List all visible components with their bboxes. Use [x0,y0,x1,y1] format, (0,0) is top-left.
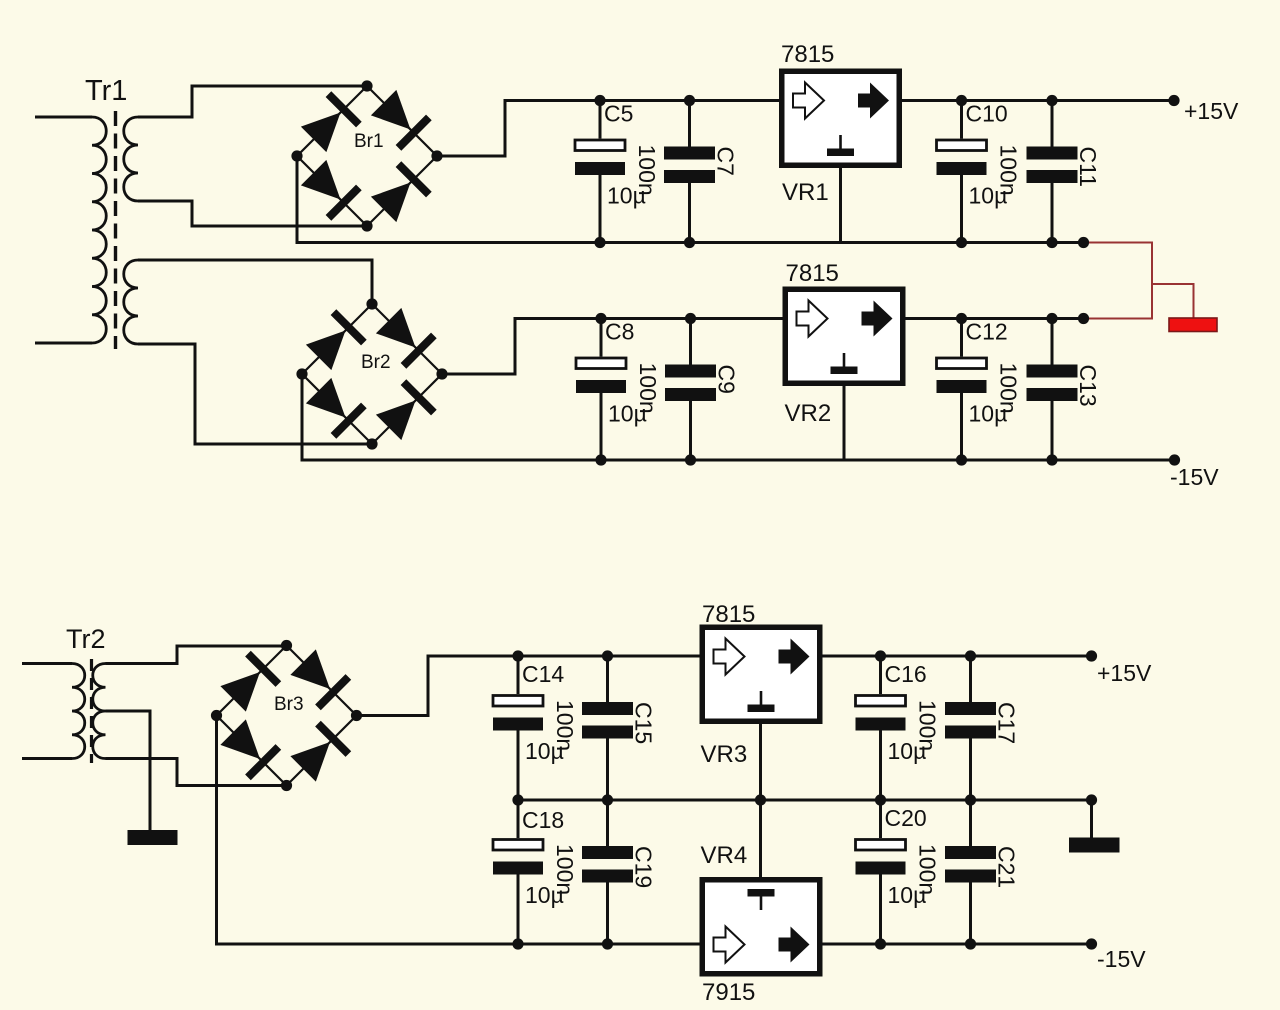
wire Br1 minus to 0V rail [297,156,1084,243]
junction node (600,100.5) [594,95,605,106]
wire Tr2 secondary top to Br3 AC top [106,646,287,664]
svg-text:100n: 100n [552,700,578,751]
junction node (760.5,800) [755,794,766,805]
wire VR3 output to +15V terminal [823,655,1092,658]
junction node (1052,318.5) [1046,313,1057,324]
svg-text:100n: 100n [635,363,661,414]
junction node (607.5,800) [602,794,613,805]
wire Tr1 secondary2 top to Br2 AC top [138,260,372,304]
svg-text:100n: 100n [996,145,1022,196]
junction node (970.5,944) [965,938,976,949]
svg-text:7915: 7915 [702,979,755,1006]
bridge rectifier Br2 [296,298,447,449]
wire middle 0V rail [518,799,1092,802]
bridge rectifier Br1 [291,80,442,231]
junction node (607.5,656) [602,650,613,661]
transformer Tr1 [85,75,138,349]
junction node (1052,242.5) [1046,237,1057,248]
capacitor C21 [915,800,1020,944]
junction node (970.5,800) [965,794,976,805]
wire Br2 plus to VR2 input rail [442,319,783,375]
capacitor C10 [937,101,1008,243]
svg-text:7815: 7815 [781,41,834,68]
svg-text:C11: C11 [1075,147,1101,188]
junction node (961.5,100.5) [956,95,967,106]
junction node (689.5,242.5) [684,237,695,248]
wire red link top rail [1084,243,1153,319]
voltage regulator VR2 (7815) [785,289,903,383]
wire VR1 output to +15V terminal [902,99,1174,102]
wire Br3 plus to VR3 input rail [357,656,700,716]
svg-text:C15: C15 [631,702,657,744]
capacitor C7 [634,101,739,243]
wire Tr1 primary bottom lead [35,342,92,345]
junction node (600,242.5) [594,237,605,248]
svg-text:VR2: VR2 [785,400,832,427]
svg-text:Tr1: Tr1 [85,75,127,107]
node -15V terminal (bottom) [1086,938,1097,949]
capacitor C9 [635,319,740,461]
junction node (1091.5,800) [1086,794,1097,805]
capacitor C16 [856,656,927,800]
svg-text:+15V: +15V [1184,98,1239,124]
svg-text:100n: 100n [915,700,941,751]
junction node (518,800) [512,794,523,805]
svg-text:7815: 7815 [702,601,755,628]
svg-text:C13: C13 [1075,365,1101,407]
svg-text:VR4: VR4 [701,842,748,869]
capacitor C12 [937,319,1008,461]
capacitor C14 [493,656,564,800]
junction node (1083.5,318.5) [1078,313,1089,324]
ground bar (right) [1069,838,1120,853]
wire Tr2 secondary bottom to Br3 AC bottom [106,759,287,786]
junction node (880.5,800) [875,794,886,805]
svg-text:100n: 100n [996,363,1022,414]
bridge rectifier Br3 [211,640,362,791]
svg-text:+15V: +15V [1097,660,1152,686]
svg-text:VR1: VR1 [782,179,829,206]
wire Br1 plus to VR1 input rail [437,101,779,157]
junction node (880.5,944) [875,938,886,949]
svg-text:C9: C9 [714,365,740,394]
svg-text:C12: C12 [966,319,1008,345]
junction node (970.5,656) [965,650,976,661]
ground bar (center tap) [128,830,178,845]
capacitor C13 [996,319,1102,461]
junction node (601,318.5) [595,313,606,324]
wire ground stub (right) [1090,800,1093,838]
svg-text:VR3: VR3 [701,741,748,768]
wire Tr2 primary bottom lead [22,757,72,760]
voltage regulator VR1 (7815) [782,71,900,165]
capacitor C20 [856,800,927,944]
wire VR2 output rail [906,317,1084,320]
wire Tr1 secondary1 bottom to Br1 AC bottom [138,201,367,226]
svg-text:100n: 100n [552,844,578,895]
wire Br2 minus to -15V rail [302,374,1175,460]
svg-text:Tr2: Tr2 [66,624,106,654]
svg-text:Br2: Br2 [361,352,391,373]
junction node (607.5,944) [602,938,613,949]
svg-text:-15V: -15V [1170,464,1219,490]
capacitor C11 [996,101,1102,243]
svg-text:C10: C10 [966,101,1008,127]
svg-text:C14: C14 [522,661,564,687]
node +15V terminal (top) [1168,95,1179,106]
svg-text:C19: C19 [631,846,657,888]
junction node (690.5,460) [685,454,696,465]
wire Tr2 center tap to ground [106,711,151,830]
svg-text:C7: C7 [713,147,739,176]
wire Br3 minus to -15V rail [217,716,1092,945]
junction node (961.5,242.5) [956,237,967,248]
svg-text:C8: C8 [605,319,634,345]
junction node (690.5,318.5) [685,313,696,324]
capacitor C17 [915,656,1020,800]
svg-text:C17: C17 [994,702,1020,744]
junction node (518,944) [512,938,523,949]
svg-text:7815: 7815 [786,260,839,287]
wire Tr1 secondary2 bottom to Br2 AC bottom [138,344,372,444]
svg-text:C5: C5 [604,101,633,127]
junction node (880.5,656) [875,650,886,661]
capacitor C18 [493,800,564,944]
wire VR4 ground pin [759,800,762,878]
node +15V terminal (bottom) [1086,650,1097,661]
transformer Tr2 [66,624,106,763]
capacitor C8 [576,319,647,461]
svg-text:Br1: Br1 [354,131,384,152]
junction node (601,460) [595,454,606,465]
voltage regulator VR4 (7915) [702,880,820,974]
svg-text:C20: C20 [885,805,927,831]
junction node (689.5,100.5) [684,95,695,106]
capacitor C5 [575,101,646,243]
junction node (518,656) [512,650,523,661]
capacitor C19 [552,800,657,944]
ground red bar [1169,318,1217,332]
wire VR1 ground pin [839,168,842,243]
svg-text:Br3: Br3 [274,694,304,715]
voltage regulator VR3 (7815) [702,627,820,721]
svg-text:C18: C18 [522,807,564,833]
wire red ground branch [1152,284,1194,319]
wire Tr2 primary top lead [22,662,72,665]
svg-text:C16: C16 [885,661,927,687]
svg-text:-15V: -15V [1097,946,1146,972]
wire Tr1 secondary1 top to Br1 AC top [138,86,367,117]
junction node (1052,460) [1046,454,1057,465]
junction node (961.5,318.5) [956,313,967,324]
junction node (961.5,460) [956,454,967,465]
svg-text:C21: C21 [994,846,1020,888]
svg-text:100n: 100n [634,145,660,196]
node -15V terminal (top) [1169,454,1180,465]
svg-text:100n: 100n [915,844,941,895]
junction node (1083.5,242.5) [1078,237,1089,248]
wire Tr1 primary top lead [35,116,92,119]
wire VR2 ground pin [843,386,846,460]
junction node (1052,100.5) [1046,95,1057,106]
wire VR3 ground pin [759,724,762,801]
capacitor C15 [552,656,657,800]
